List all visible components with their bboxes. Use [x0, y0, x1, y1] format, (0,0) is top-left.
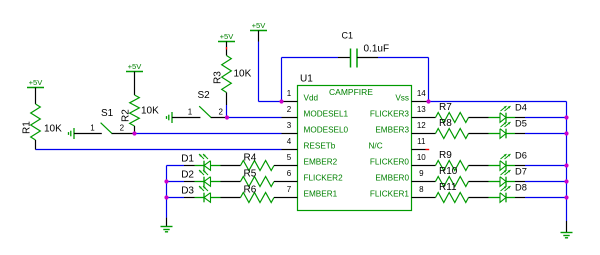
svg-text:+5V: +5V	[220, 32, 235, 41]
svg-text:C1: C1	[342, 31, 354, 41]
svg-text:0.1uF: 0.1uF	[364, 44, 390, 55]
svg-text:Vdd: Vdd	[304, 94, 319, 103]
svg-text:3: 3	[287, 121, 292, 130]
svg-text:R10: R10	[439, 166, 458, 177]
svg-text:FLICKER2: FLICKER2	[304, 174, 344, 183]
svg-text:+5V: +5V	[128, 62, 143, 71]
svg-text:R9: R9	[439, 150, 452, 161]
svg-text:D2: D2	[181, 169, 194, 180]
svg-text:FLICKER0: FLICKER0	[370, 158, 410, 167]
svg-text:D3: D3	[181, 185, 194, 196]
svg-text:N/C: N/C	[369, 142, 383, 151]
svg-text:+5V: +5V	[252, 21, 267, 30]
svg-text:R3: R3	[213, 71, 224, 84]
svg-text:R4: R4	[244, 153, 257, 164]
svg-text:FLICKER3: FLICKER3	[370, 110, 410, 119]
svg-text:R7: R7	[439, 102, 452, 113]
svg-text:D8: D8	[515, 183, 527, 193]
svg-text:EMBER1: EMBER1	[304, 190, 338, 199]
svg-text:10K: 10K	[44, 124, 62, 135]
svg-text:R8: R8	[439, 118, 452, 129]
svg-text:7: 7	[287, 185, 292, 194]
svg-text:U1: U1	[300, 74, 313, 85]
svg-text:13: 13	[417, 105, 426, 114]
svg-text:10: 10	[417, 153, 426, 162]
svg-text:5: 5	[287, 153, 292, 162]
svg-text:12: 12	[417, 121, 426, 130]
svg-text:D1: D1	[181, 153, 194, 164]
svg-text:8: 8	[419, 185, 424, 194]
svg-text:1: 1	[188, 108, 193, 117]
svg-text:2: 2	[218, 108, 223, 117]
svg-text:14: 14	[417, 89, 426, 98]
svg-text:R2: R2	[121, 109, 132, 122]
svg-text:D5: D5	[515, 119, 527, 129]
svg-text:R6: R6	[244, 185, 257, 196]
svg-text:D4: D4	[515, 103, 527, 113]
svg-text:1: 1	[90, 124, 95, 133]
svg-text:6: 6	[287, 169, 292, 178]
svg-text:4: 4	[287, 137, 292, 146]
svg-text:2: 2	[287, 105, 292, 114]
svg-text:RESETb: RESETb	[304, 142, 336, 151]
svg-text:EMBER2: EMBER2	[304, 158, 338, 167]
svg-text:R5: R5	[244, 169, 257, 180]
svg-text:+5V: +5V	[29, 78, 44, 87]
svg-text:Vss: Vss	[395, 94, 409, 103]
svg-text:10K: 10K	[141, 106, 159, 117]
svg-text:EMBER0: EMBER0	[375, 174, 409, 183]
svg-text:MODESEL1: MODESEL1	[304, 110, 349, 119]
svg-text:CAMPFIRE: CAMPFIRE	[329, 87, 373, 97]
svg-text:FLICKER1: FLICKER1	[370, 190, 410, 199]
svg-text:MODESEL0: MODESEL0	[304, 126, 349, 135]
svg-text:1: 1	[287, 89, 292, 98]
svg-text:S1: S1	[101, 108, 114, 119]
svg-text:R1: R1	[22, 121, 33, 134]
svg-text:10K: 10K	[234, 69, 252, 80]
svg-text:D6: D6	[515, 151, 527, 161]
svg-text:EMBER3: EMBER3	[375, 126, 409, 135]
svg-text:D7: D7	[515, 167, 527, 177]
svg-text:S2: S2	[198, 90, 211, 101]
svg-text:2: 2	[120, 124, 125, 133]
svg-text:11: 11	[417, 137, 426, 146]
svg-text:9: 9	[419, 169, 424, 178]
svg-text:R11: R11	[439, 182, 457, 193]
